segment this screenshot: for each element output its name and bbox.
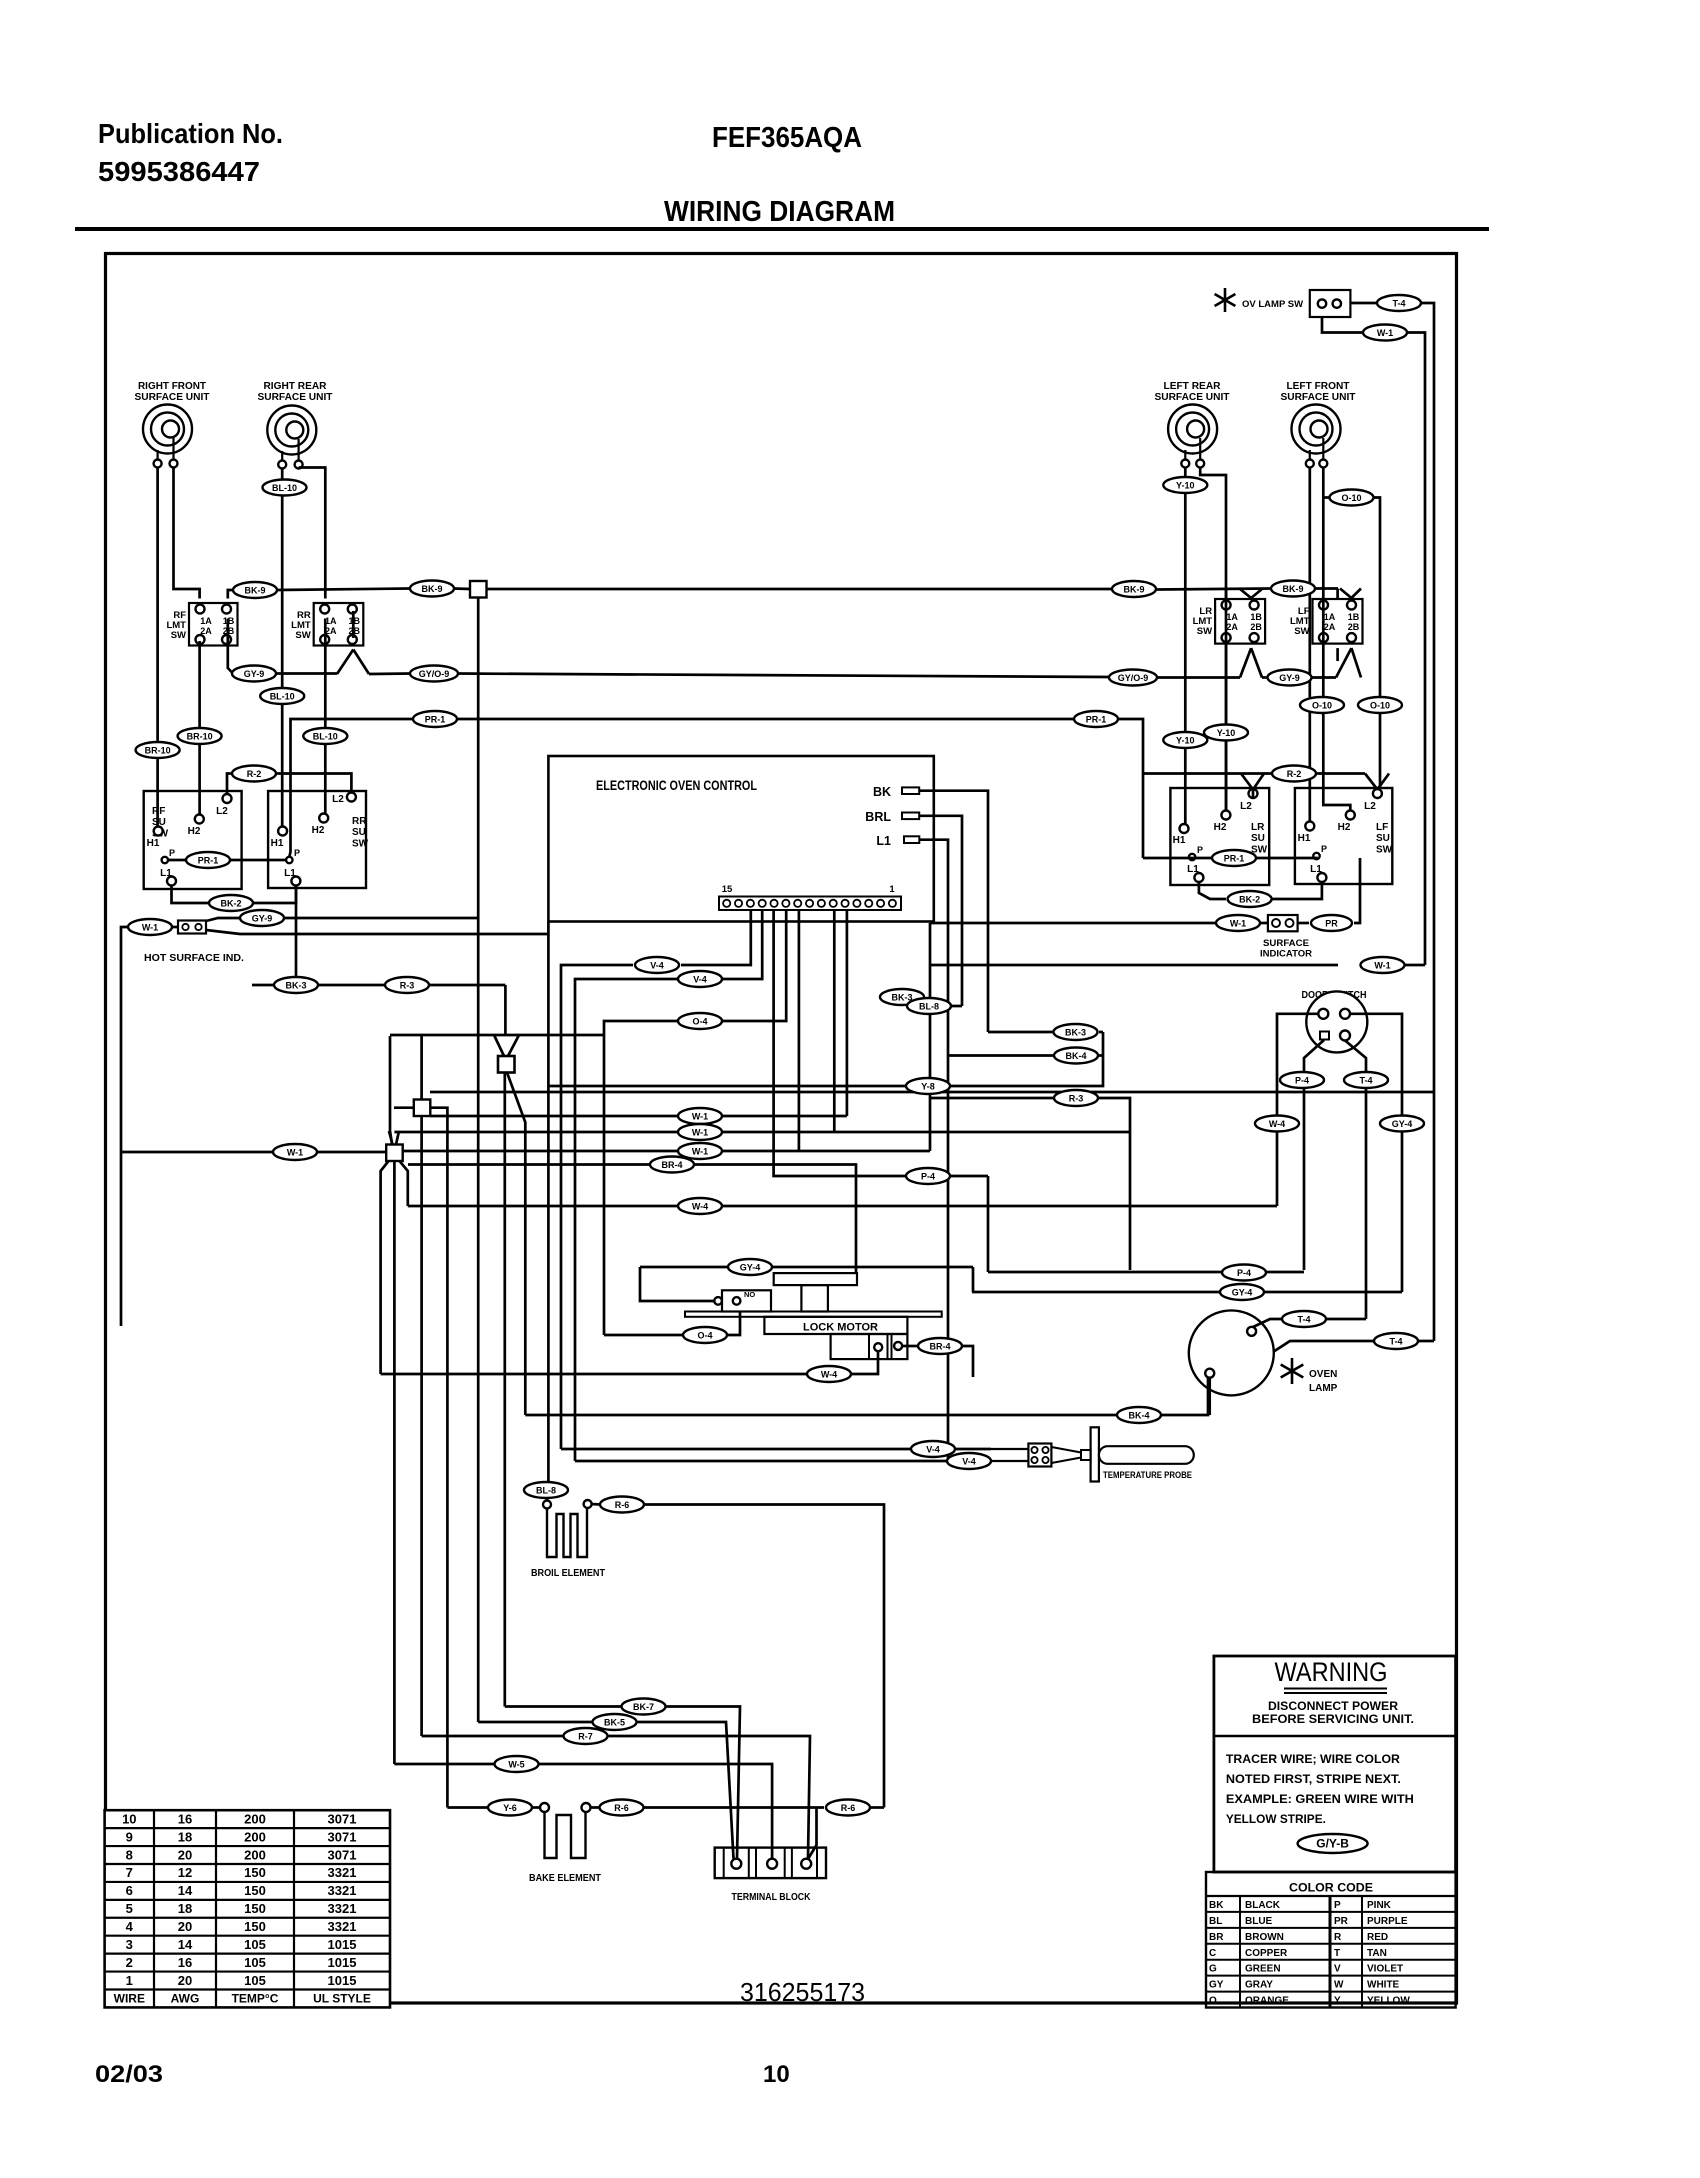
wire label W-1 bbox=[678, 1108, 722, 1124]
wire indicator lower bbox=[206, 930, 548, 934]
svg-text:PR-1: PR-1 bbox=[1224, 854, 1245, 864]
svg-text:BK-2: BK-2 bbox=[220, 899, 241, 909]
svg-text:BK-5: BK-5 bbox=[604, 1718, 625, 1728]
wire PR-1 to LF P bbox=[1257, 858, 1317, 859]
wire down to J4 bbox=[420, 1036, 423, 1100]
svg-text:GY: GY bbox=[1209, 1980, 1224, 1991]
wire V right into J2 bbox=[508, 1035, 519, 1056]
svg-text:SW: SW bbox=[1197, 626, 1212, 637]
svg-text:GREEN: GREEN bbox=[1245, 1964, 1281, 1975]
svg-text:UL STYLE: UL STYLE bbox=[313, 1992, 371, 2006]
wire R-6 down right bbox=[644, 1505, 884, 1808]
svg-text:GY-4: GY-4 bbox=[740, 1263, 761, 1273]
wire label V-4 bbox=[635, 957, 679, 973]
wire label BR-4 bbox=[918, 1338, 962, 1354]
svg-text:1A: 1A bbox=[1324, 612, 1336, 622]
wire RF H1 / BR-10 bbox=[156, 468, 159, 827]
RF L2 pin bbox=[223, 794, 232, 803]
stub bbox=[297, 466, 300, 469]
coil lead bbox=[157, 450, 159, 460]
wire label T-4 bbox=[1344, 1072, 1388, 1088]
wire label O-10 bbox=[1330, 490, 1374, 506]
svg-text:OVEN: OVEN bbox=[1309, 1369, 1337, 1380]
hot surface indicator box bbox=[178, 921, 206, 934]
wire BK-9 bus bbox=[487, 588, 1114, 591]
wire BK-3 right run bbox=[988, 1031, 1053, 1034]
svg-text:V: V bbox=[1334, 1964, 1341, 1975]
terminal strip bbox=[719, 897, 901, 911]
bake terminal 2 bbox=[582, 1803, 591, 1812]
stub bbox=[503, 1064, 506, 1067]
svg-text:02/03: 02/03 bbox=[95, 2061, 163, 2088]
wire BK-9 to LF bbox=[1315, 587, 1338, 590]
lock motor base plate bbox=[685, 1312, 942, 1317]
terminal block divider bbox=[748, 1848, 750, 1879]
svg-text:PR: PR bbox=[1325, 919, 1338, 929]
warning divider bbox=[1214, 1735, 1456, 1737]
contact divider bbox=[868, 1334, 870, 1359]
svg-text:T: T bbox=[1334, 1948, 1340, 1959]
svg-text:W-1: W-1 bbox=[142, 923, 158, 933]
wire label R-6 bbox=[826, 1800, 870, 1816]
LR surface switch bbox=[1170, 788, 1269, 885]
wire label BK-5 bbox=[593, 1714, 637, 1730]
svg-text:H2: H2 bbox=[1338, 822, 1351, 833]
terminal block bbox=[715, 1848, 826, 1879]
wire label Y-8 bbox=[906, 1078, 950, 1094]
terminal block lug 1 bbox=[731, 1859, 741, 1869]
wire label BK-9 bbox=[1112, 581, 1156, 597]
wire J4 down to R-7 bbox=[420, 1116, 423, 1736]
svg-text:R-2: R-2 bbox=[247, 769, 262, 779]
wire PR-1 to LR P bbox=[1143, 857, 1211, 860]
wire GY-4 to NO box bbox=[640, 1267, 714, 1301]
wire J4 left bbox=[394, 1106, 414, 1109]
svg-text:L1: L1 bbox=[1187, 864, 1199, 875]
right front surface unit (surface unit coil) bbox=[143, 405, 192, 454]
left front surface unit (surface unit coil) bbox=[1292, 405, 1341, 454]
surface indicator box bbox=[1268, 915, 1298, 931]
LF H1 pin bbox=[1305, 822, 1314, 831]
svg-text:O-10: O-10 bbox=[1341, 493, 1361, 503]
svg-text:W-4: W-4 bbox=[692, 1202, 708, 1212]
wire LF coil to H1 bbox=[1308, 468, 1311, 822]
stub LR 2A down bbox=[1225, 644, 1228, 811]
wire label PR-1 bbox=[186, 852, 230, 868]
terminal bbox=[154, 460, 162, 468]
RR limit switch bbox=[291, 603, 363, 646]
svg-text:10: 10 bbox=[122, 1811, 136, 1826]
LR H2 pin bbox=[1221, 811, 1230, 820]
wire branch to O-10 oval bbox=[1323, 496, 1329, 499]
LF limit switch bbox=[1290, 599, 1363, 644]
svg-text:316255173: 316255173 bbox=[740, 1977, 865, 2007]
wire lamp sw to T-4 bbox=[1350, 302, 1376, 305]
wire label BK-9 bbox=[410, 581, 454, 597]
wire label BL-8 bbox=[907, 998, 951, 1014]
svg-text:BR-4: BR-4 bbox=[929, 1342, 950, 1352]
svg-text:1: 1 bbox=[126, 1973, 133, 1988]
svg-text:W-1: W-1 bbox=[692, 1147, 708, 1157]
wire door sw W-4 bbox=[1277, 1014, 1319, 1206]
wire gauge table bbox=[105, 1810, 390, 2007]
wire label R-2 bbox=[232, 766, 276, 782]
svg-text:150: 150 bbox=[244, 1919, 266, 1934]
svg-text:WIRING DIAGRAM: WIRING DIAGRAM bbox=[664, 196, 895, 228]
wire label R-2 bbox=[1272, 766, 1316, 782]
svg-text:1A: 1A bbox=[1226, 612, 1238, 622]
wire P-4 riser bbox=[987, 1176, 990, 1272]
wire O-10 down to LF L2 bbox=[1374, 498, 1380, 790]
wire O-4 run bbox=[604, 1334, 683, 1337]
svg-text:BK-9: BK-9 bbox=[1123, 585, 1144, 595]
wire P-4 run bbox=[988, 1271, 1304, 1274]
svg-text:2: 2 bbox=[126, 1955, 133, 1970]
wire label PR-1 bbox=[1212, 850, 1256, 866]
junction J3 bbox=[386, 1145, 403, 1162]
svg-text:R-3: R-3 bbox=[1069, 1094, 1084, 1104]
terminal bbox=[1319, 460, 1327, 468]
wire LR coil to H2 / Y-10 bbox=[1200, 468, 1226, 811]
svg-text:R: R bbox=[1334, 1932, 1342, 1943]
wire label W-1 bbox=[678, 1143, 722, 1159]
svg-text:H2: H2 bbox=[1214, 822, 1227, 833]
wire label Y-10 bbox=[1163, 477, 1207, 493]
svg-text:LEFT REAR: LEFT REAR bbox=[1164, 381, 1221, 392]
svg-text:W-1: W-1 bbox=[692, 1128, 708, 1138]
svg-text:WIRE: WIRE bbox=[114, 1992, 145, 2006]
wire T-4 long vertical bbox=[1421, 303, 1434, 1341]
svg-text:ELECTRONIC OVEN CONTROL: ELECTRONIC OVEN CONTROL bbox=[596, 778, 757, 793]
svg-text:3071: 3071 bbox=[328, 1847, 357, 1862]
svg-text:14: 14 bbox=[178, 1937, 193, 1952]
svg-text:BLUE: BLUE bbox=[1245, 1916, 1273, 1927]
asterisk for OV LAMP SW bbox=[1215, 288, 1236, 312]
svg-text:W: W bbox=[1334, 1980, 1344, 1991]
stub bbox=[504, 1065, 507, 1068]
LR P pin bbox=[1189, 854, 1195, 860]
junction J4 bbox=[414, 1100, 431, 1117]
svg-text:150: 150 bbox=[244, 1865, 266, 1880]
svg-text:L2: L2 bbox=[1240, 801, 1252, 812]
svg-text:3321: 3321 bbox=[328, 1883, 357, 1898]
LF surface switch bbox=[1295, 788, 1392, 884]
wire label W-4 bbox=[807, 1366, 851, 1382]
wire label BR-10 bbox=[178, 728, 222, 744]
terminal bbox=[1181, 460, 1189, 468]
wire lamp sw to W-1 bbox=[1322, 317, 1362, 333]
terminal block divider bbox=[784, 1848, 786, 1879]
wire label T-4 bbox=[1374, 1333, 1418, 1349]
wire J4 to Y-6 run bbox=[430, 1108, 447, 1808]
svg-text:VIOLET: VIOLET bbox=[1367, 1964, 1403, 1975]
wire lock motor to BR-4 bbox=[902, 1345, 917, 1348]
G/Y-B example oval bbox=[1298, 1834, 1368, 1853]
wire pin8 down bbox=[798, 910, 801, 1151]
svg-text:BLACK: BLACK bbox=[1245, 1900, 1281, 1911]
RR surface switch bbox=[268, 791, 366, 888]
door switch body bbox=[1306, 991, 1367, 1052]
wire R-6 run bbox=[644, 1806, 824, 1809]
svg-text:W-5: W-5 bbox=[508, 1760, 524, 1770]
wire W-1 run 2 bbox=[394, 1131, 1130, 1134]
svg-text:BK: BK bbox=[1209, 1900, 1224, 1911]
wire label R-3 bbox=[1054, 1090, 1098, 1106]
stub LR P bbox=[1191, 857, 1194, 860]
wire junction J1 down to BK-5 bbox=[477, 598, 480, 1723]
wire R-2 to RR L2 bbox=[275, 774, 351, 793]
svg-text:R-3: R-3 bbox=[400, 981, 415, 991]
svg-text:W-4: W-4 bbox=[821, 1370, 837, 1380]
probe mounting plate bbox=[1091, 1427, 1099, 1481]
svg-text:EXAMPLE: GREEN WIRE WITH: EXAMPLE: GREEN WIRE WITH bbox=[1226, 1792, 1414, 1806]
svg-text:GY/O-9: GY/O-9 bbox=[1118, 673, 1149, 683]
wire door sw T-4 bbox=[1345, 1041, 1366, 1320]
coil lead bbox=[1322, 438, 1324, 460]
terminal block divider bbox=[723, 1848, 725, 1879]
RR L1 pin bbox=[291, 877, 300, 886]
wire pin10 down bbox=[833, 910, 836, 1132]
wire BK-7 vertical bbox=[503, 1073, 506, 1707]
wire BK-5 run a bbox=[478, 1721, 592, 1724]
wire V-4 down 2 bbox=[575, 979, 677, 1461]
wire LR L2 crossover bbox=[1253, 774, 1264, 790]
svg-text:BL-8: BL-8 bbox=[919, 1002, 939, 1012]
wire W-1 run 3 bbox=[402, 1150, 930, 1153]
svg-text:P: P bbox=[1321, 844, 1327, 854]
svg-text:LOCK MOTOR: LOCK MOTOR bbox=[803, 1322, 878, 1334]
svg-text:P: P bbox=[169, 848, 175, 858]
RF surface switch bbox=[144, 791, 242, 889]
svg-text:1015: 1015 bbox=[328, 1973, 357, 1988]
svg-text:SURFACE UNIT: SURFACE UNIT bbox=[1155, 392, 1230, 403]
wire W-1 to junction J3 bbox=[121, 1151, 386, 1154]
svg-text:BEFORE SERVICING UNIT.: BEFORE SERVICING UNIT. bbox=[1252, 1712, 1414, 1726]
wire label T-4 bbox=[1377, 295, 1421, 311]
wire R-3 right bbox=[430, 984, 505, 987]
wire label W-1 bbox=[128, 919, 172, 935]
wire lamp to T-4 bbox=[1253, 1319, 1366, 1327]
stub bbox=[1260, 922, 1268, 925]
svg-text:2B: 2B bbox=[1250, 622, 1262, 632]
wire GY-9 to LF bbox=[1311, 676, 1336, 679]
terminal block lug 2 bbox=[767, 1859, 777, 1869]
svg-text:BK: BK bbox=[873, 785, 891, 799]
wire down to J3 bbox=[390, 1036, 392, 1144]
svg-text:COLOR CODE: COLOR CODE bbox=[1289, 1883, 1373, 1895]
wire bake to R-6 bbox=[591, 1806, 600, 1809]
wire BK-4 long run bbox=[525, 1377, 1208, 1415]
wire indicator to GY-9 bbox=[206, 918, 239, 921]
svg-text:SU: SU bbox=[1251, 833, 1265, 844]
wire EOC corner down through Y-8 to broil BL-8 bbox=[547, 922, 550, 1483]
wire BK-7 to terminal block bbox=[666, 1707, 740, 1859]
svg-text:P: P bbox=[294, 848, 300, 858]
wire RF coil to 1A bbox=[174, 468, 200, 599]
svg-text:AWG: AWG bbox=[171, 1992, 200, 2006]
wire label V-4 bbox=[947, 1453, 991, 1469]
terminal bbox=[295, 461, 303, 469]
wire LF L2 crossover bbox=[1377, 774, 1389, 790]
svg-text:OV LAMP SW: OV LAMP SW bbox=[1242, 299, 1303, 310]
wire label BK-4 bbox=[1117, 1407, 1161, 1423]
coil lead bbox=[1309, 450, 1311, 460]
svg-text:3321: 3321 bbox=[328, 1901, 357, 1916]
terminal bbox=[170, 460, 178, 468]
wire GY-4 lower run bbox=[972, 1291, 1402, 1294]
svg-text:Y-8: Y-8 bbox=[921, 1082, 935, 1092]
wire broil to R-6 bbox=[592, 1503, 601, 1506]
svg-text:18: 18 bbox=[178, 1901, 192, 1916]
lock motor stem bbox=[801, 1285, 828, 1311]
wire GY to LR 2B bbox=[1240, 648, 1251, 677]
svg-text:O-10: O-10 bbox=[1370, 701, 1390, 711]
stub LR L2 bbox=[1252, 790, 1255, 798]
wire BK-5 to terminal block bbox=[637, 1722, 734, 1859]
RR H1 pin bbox=[278, 827, 287, 836]
wire O-4 down bbox=[604, 1021, 677, 1335]
svg-text:TRACER WIRE; WIRE COLOR: TRACER WIRE; WIRE COLOR bbox=[1226, 1752, 1400, 1766]
wire RR coil to 1A bbox=[299, 468, 326, 599]
svg-text:5995386447: 5995386447 bbox=[98, 156, 260, 187]
LR H1 pin bbox=[1180, 824, 1189, 833]
svg-text:150: 150 bbox=[244, 1901, 266, 1916]
wire R-2 right bus bbox=[1143, 772, 1271, 775]
wire RF 2B to GY-9 bbox=[228, 619, 233, 674]
wire R-3 right run bbox=[930, 1097, 1053, 1100]
wire PR-1 bus to right bbox=[1119, 719, 1143, 858]
svg-text:W-1: W-1 bbox=[1377, 328, 1393, 338]
svg-text:L2: L2 bbox=[1364, 801, 1376, 812]
RR H2 pin bbox=[319, 814, 328, 823]
stub bbox=[547, 933, 550, 936]
wire vertical right W-1 bbox=[929, 923, 932, 1151]
terminal block divider bbox=[791, 1848, 793, 1879]
svg-text:NOTED FIRST, STRIPE NEXT.: NOTED FIRST, STRIPE NEXT. bbox=[1226, 1772, 1401, 1786]
wire V-4 probe run 2 bbox=[575, 1460, 947, 1463]
svg-text:L2: L2 bbox=[216, 806, 228, 817]
probe lead bbox=[991, 1448, 1028, 1450]
wire label R-7 bbox=[564, 1728, 608, 1744]
wire pin11 down bbox=[846, 910, 849, 1116]
wire label W-1 bbox=[1361, 957, 1405, 973]
svg-text:PINK: PINK bbox=[1367, 1900, 1392, 1911]
svg-text:H2: H2 bbox=[188, 826, 201, 837]
svg-text:TEMPERATURE PROBE: TEMPERATURE PROBE bbox=[1103, 1470, 1192, 1481]
wire V into J3 b bbox=[396, 1131, 399, 1145]
wire BR-4 to lock motor bbox=[695, 1165, 856, 1274]
wire BK-9 to LR 1B bbox=[1240, 589, 1251, 598]
svg-text:P-4: P-4 bbox=[1295, 1076, 1309, 1086]
svg-text:PR: PR bbox=[1334, 1916, 1349, 1927]
svg-text:SW: SW bbox=[1294, 626, 1309, 637]
wire LF 2B crossover bbox=[1351, 648, 1361, 677]
svg-text:GY-9: GY-9 bbox=[1279, 673, 1300, 683]
wire label W-1 bbox=[1216, 915, 1260, 931]
svg-text:BK-3: BK-3 bbox=[1065, 1028, 1086, 1038]
wire label GY-4 bbox=[728, 1259, 772, 1275]
svg-text:W-4: W-4 bbox=[1269, 1119, 1285, 1129]
coil lead bbox=[1199, 438, 1201, 460]
svg-text:SU: SU bbox=[1376, 833, 1390, 844]
wire BK-9 to LR 1A bbox=[1225, 589, 1228, 598]
wire RR P up to PR-1 bus bbox=[289, 719, 413, 857]
svg-text:PR-1: PR-1 bbox=[1086, 715, 1107, 725]
probe body bbox=[1099, 1446, 1194, 1464]
wire RR coil to H1 / BL-10 bbox=[281, 468, 284, 827]
svg-text:ORANGE: ORANGE bbox=[1245, 1996, 1289, 2007]
probe lead bbox=[991, 1460, 1028, 1462]
wire J2 diagonal down / BK-4 feed bbox=[507, 1073, 525, 1416]
wire W-1 left down bbox=[121, 927, 128, 1326]
wire BK-9 link bbox=[277, 589, 410, 591]
svg-text:14: 14 bbox=[178, 1883, 193, 1898]
svg-text:Y-10: Y-10 bbox=[1176, 736, 1195, 746]
wire label P-4 bbox=[1280, 1072, 1324, 1088]
svg-text:8: 8 bbox=[126, 1847, 133, 1862]
svg-text:3: 3 bbox=[126, 1937, 133, 1952]
wire label BK-9 bbox=[1271, 581, 1315, 597]
svg-text:LR: LR bbox=[1251, 822, 1265, 833]
wire GY-9 link 2 bbox=[369, 672, 412, 675]
wire label BR-10 bbox=[136, 742, 180, 758]
wire W-4 long run bbox=[408, 1205, 1277, 1208]
terminal block lug 3 bbox=[801, 1859, 811, 1869]
svg-text:L1: L1 bbox=[160, 868, 172, 879]
wire LR L1 to BK-2 bbox=[1199, 882, 1226, 899]
svg-text:BRL: BRL bbox=[865, 810, 891, 824]
wire LF 1B crossover bbox=[1351, 589, 1361, 599]
svg-text:V-4: V-4 bbox=[926, 1445, 940, 1455]
svg-text:3321: 3321 bbox=[328, 1919, 357, 1934]
svg-text:BK-9: BK-9 bbox=[244, 586, 265, 596]
svg-text:6: 6 bbox=[126, 1883, 133, 1898]
LR L1 pin bbox=[1194, 873, 1203, 882]
wire label T-4 bbox=[1282, 1311, 1326, 1327]
svg-text:150: 150 bbox=[244, 1883, 266, 1898]
svg-text:H1: H1 bbox=[1173, 835, 1186, 846]
svg-text:SURFACE UNIT: SURFACE UNIT bbox=[258, 392, 333, 403]
svg-text:COPPER: COPPER bbox=[1245, 1948, 1288, 1959]
wire LR 2B crossover bbox=[1251, 648, 1262, 677]
wire label BK-2 bbox=[1228, 891, 1272, 907]
wire label BK-2 bbox=[209, 895, 253, 911]
svg-text:GY-9: GY-9 bbox=[244, 669, 265, 679]
svg-text:BROIL ELEMENT: BROIL ELEMENT bbox=[531, 1568, 605, 1579]
svg-text:LAMP: LAMP bbox=[1309, 1383, 1338, 1394]
svg-text:INDICATOR: INDICATOR bbox=[1260, 949, 1312, 960]
stub bbox=[990, 1460, 993, 1463]
svg-text:PR-1: PR-1 bbox=[198, 856, 219, 866]
wire GY/O-9 link right bbox=[1155, 676, 1240, 679]
wire label W-4 bbox=[1255, 1116, 1299, 1132]
wire RF L1 to RR L1 / BK-2 bbox=[172, 886, 297, 904]
wire label Y-10 bbox=[1204, 725, 1248, 741]
svg-text:BR-10: BR-10 bbox=[187, 732, 213, 742]
contact divider bbox=[887, 1334, 889, 1359]
wire RF 2A to H2 / BR-10 bbox=[198, 641, 201, 815]
svg-text:Y: Y bbox=[1334, 1996, 1341, 2007]
wire R-6 to terminal block bbox=[808, 1808, 817, 1860]
svg-text:9: 9 bbox=[126, 1829, 133, 1844]
wire label Y-6 bbox=[488, 1800, 532, 1816]
svg-text:BK-4: BK-4 bbox=[1065, 1051, 1086, 1061]
svg-text:O-10: O-10 bbox=[1312, 701, 1332, 711]
coil lead bbox=[172, 438, 174, 460]
wire W-1 long vertical bbox=[1408, 333, 1425, 966]
svg-text:2A: 2A bbox=[1226, 622, 1238, 632]
wire O-4 to NO box bbox=[727, 1312, 740, 1336]
